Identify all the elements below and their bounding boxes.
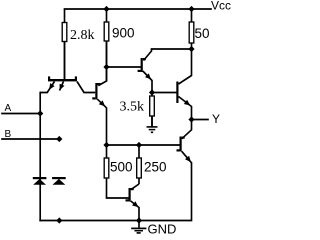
svg-text:3.5k: 3.5k: [120, 100, 145, 115]
transistor V3 darlington driver: [138, 49, 152, 93]
resistor R4 50: [189, 9, 194, 49]
node dot input B: [56, 136, 62, 142]
svg-text:250: 250: [144, 160, 167, 175]
node dot Vcc rail / 50: [188, 6, 194, 12]
wire collector rail to 50 ohm node: [152, 48, 192, 50]
svg-text:500: 500: [110, 160, 133, 175]
transistor V6 squaring network: [126, 184, 140, 221]
ground symbol GND main: [131, 221, 146, 233]
svg-text:A: A: [5, 103, 12, 114]
svg-text:900: 900: [112, 26, 135, 41]
svg-text:GND: GND: [148, 222, 177, 237]
wire input A: [2, 113, 40, 115]
wire bottom ground rail: [40, 163, 191, 221]
wire mid rail to V5 base: [107, 144, 180, 146]
node C dot V2 collector tap: [103, 64, 109, 70]
transistor V4 output darlington: [176, 49, 191, 120]
transistor V5 output pulldown: [177, 120, 192, 163]
svg-text:Y: Y: [212, 112, 220, 126]
svg-text:2.8k: 2.8k: [70, 28, 95, 43]
wire input B: [2, 138, 59, 140]
node dot ground rail / B column: [56, 217, 62, 223]
node dot ground rail / V6 emitter: [136, 217, 142, 223]
wire left input column A: [39, 93, 41, 221]
svg-text:Vcc: Vcc: [211, 0, 231, 13]
resistor R3 500: [104, 145, 128, 198]
node dot Vcc rail / 900: [103, 6, 109, 12]
resistor R5 3.5k: [150, 93, 155, 127]
svg-text:B: B: [5, 129, 12, 140]
resistor R1 2.8k: [62, 9, 67, 79]
diode VD1 input clamp A: [33, 177, 47, 185]
node dot 3.5k top: [149, 89, 155, 95]
node dot 50-V3-V4 collectors: [188, 46, 194, 52]
wire V3 base from node C: [107, 66, 141, 68]
wire top rail Vcc: [65, 8, 212, 10]
transistor V2 phase splitter: [92, 41, 106, 145]
node dot mid rail / 250: [136, 142, 142, 148]
resistor R2 900: [104, 9, 109, 81]
resistor R6 250: [137, 145, 142, 184]
svg-text:50: 50: [195, 26, 210, 41]
ground symbol under 3.5k: [147, 116, 158, 132]
transistor V1 multi-emitter input: [40, 42, 95, 93]
wire V4 base from 3.5k node: [152, 92, 176, 94]
node Y output dot: [188, 116, 194, 122]
wire output Y stub: [192, 119, 209, 121]
node dot mid rail / 500: [103, 142, 109, 148]
diode VD2 input clamp B: [52, 177, 66, 185]
node dot input A: [37, 110, 43, 116]
